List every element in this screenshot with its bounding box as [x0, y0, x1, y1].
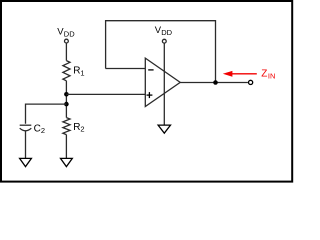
- supply terminal circle (left VDD): [65, 39, 69, 43]
- resistor R2: [63, 118, 70, 135]
- wire R2 to ground: [65, 135, 67, 159]
- svg-text:DD: DD: [64, 30, 75, 39]
- feedback wire (output to inverting input): [106, 21, 216, 83]
- op-amp U1: [145, 58, 180, 106]
- wire feedback to op-amp - input: [106, 68, 146, 70]
- svg-text:R: R: [73, 122, 80, 133]
- svg-text:2: 2: [80, 125, 84, 134]
- wire R1 to node/R2: [65, 81, 67, 118]
- wire op-amp output: [180, 82, 248, 84]
- supply terminal circle (op-amp VDD): [162, 39, 166, 43]
- wire node to op-amp + input: [66, 93, 145, 95]
- wire VDD to R1: [65, 43, 67, 60]
- wire VDD through op-amp to ground: [163, 44, 165, 126]
- svg-text:1: 1: [80, 68, 84, 77]
- output junction dot: [213, 80, 218, 85]
- node junction dot (to C2): [64, 102, 69, 107]
- wire node to C2: [26, 104, 67, 124]
- ground (under R2): [61, 158, 73, 166]
- svg-text:2: 2: [41, 126, 45, 135]
- svg-text:IN: IN: [268, 72, 276, 81]
- output terminal circle: [249, 80, 253, 84]
- op-amp + pin label: [147, 94, 153, 96]
- border frame: [1, 1, 292, 182]
- wire C2 to ground: [25, 131, 27, 158]
- Zin arrow (red): [231, 73, 257, 75]
- capacitor C2: [20, 124, 32, 126]
- op-amp - pin label: [148, 69, 153, 71]
- ground (under C2): [20, 158, 32, 166]
- svg-text:C: C: [34, 123, 41, 134]
- svg-text:Z: Z: [261, 68, 267, 79]
- ground (op-amp): [158, 125, 170, 133]
- resistor R1: [63, 61, 70, 81]
- svg-text:R: R: [73, 66, 80, 77]
- node junction dot (to op-amp +): [64, 92, 69, 97]
- svg-text:DD: DD: [161, 28, 172, 37]
